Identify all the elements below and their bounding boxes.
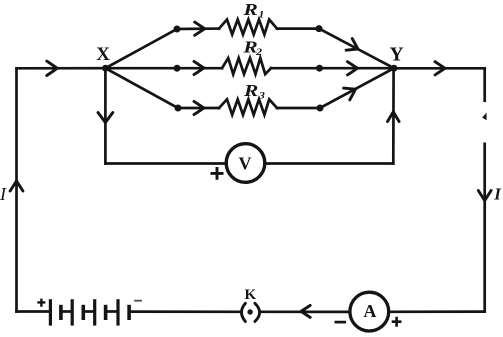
- wire R2 right segment to Y: [271, 67, 394, 70]
- node R3 right dot: [317, 105, 324, 112]
- arrow on R1-Y diagonal: [346, 39, 358, 51]
- wire right rail lower: [483, 144, 486, 312]
- node R1 right dot: [316, 25, 323, 32]
- wire X to R2 left segment: [105, 67, 222, 70]
- label minus ammeter: [335, 321, 347, 324]
- node X dot: [102, 65, 109, 72]
- arrow left between key and ammeter: [301, 305, 310, 317]
- node R3 left dot: [175, 105, 182, 112]
- svg-text:Y: Y: [389, 44, 403, 65]
- node Y dot: [391, 65, 398, 72]
- wire X down to voltmeter row: [104, 68, 107, 163]
- svg-text:I: I: [0, 184, 7, 204]
- wire X to R1 diagonal: [105, 29, 177, 68]
- arrow right on R3 branch: [194, 101, 204, 114]
- node R2 right dot: [316, 65, 323, 72]
- arrow right before Y on R2 branch: [348, 62, 358, 75]
- battery cell 1 long plate: [49, 299, 52, 325]
- resistor R3: [219, 99, 277, 115]
- wire break tick on right rail: [482, 113, 486, 121]
- wire voltmeter right: [265, 162, 394, 165]
- wire R1 left segment: [177, 27, 219, 30]
- arrow up on voltmeter-Y wire: [388, 112, 400, 122]
- battery cell 4 long plate: [116, 299, 119, 325]
- battery cell 2 short plate: [82, 305, 86, 320]
- wire voltmeter left: [105, 162, 226, 165]
- node R1 left dot: [174, 26, 181, 33]
- wire ammeter to right rail: [389, 310, 485, 313]
- svg-text:R1: R1: [242, 1, 264, 20]
- resistor R2: [222, 58, 271, 74]
- arrow right on R1 branch: [195, 22, 205, 35]
- wire X to R3 diagonal: [105, 68, 178, 108]
- battery cell 4 short plate: [127, 305, 131, 320]
- ammeter A: [350, 292, 389, 331]
- svg-text:V: V: [239, 154, 252, 174]
- arrow down on right rail: [478, 191, 491, 201]
- wire cell3-cell4: [106, 310, 118, 313]
- wire voltmeter up to Y: [392, 68, 395, 163]
- svg-text:I: I: [493, 185, 502, 204]
- arrow on R3-Y diagonal: [344, 88, 356, 100]
- wire R3 left segment: [178, 107, 219, 110]
- key K arcs: [242, 303, 260, 321]
- arrow down on X vertical: [98, 113, 113, 123]
- svg-text:K: K: [244, 287, 256, 303]
- key contact dot: [247, 309, 252, 314]
- label + voltmeter: [211, 167, 224, 180]
- label minus battery: [134, 300, 142, 302]
- voltmeter V: [226, 144, 265, 183]
- battery cell 1 short plate: [59, 305, 63, 320]
- wire R3 to Y diagonal: [320, 68, 394, 108]
- svg-text:A: A: [363, 301, 376, 321]
- wire cell1-cell2: [61, 310, 72, 313]
- wire R3 right segment: [277, 107, 320, 110]
- svg-text:X: X: [96, 44, 110, 65]
- node R2 left dot: [174, 65, 181, 72]
- label + ammeter: [392, 317, 402, 327]
- svg-text:R2: R2: [242, 39, 262, 58]
- wire top-left horizontal to X: [17, 67, 106, 70]
- arrow right after Y: [435, 62, 445, 75]
- arrow right on R2 branch: [194, 61, 204, 74]
- wire key to ammeter: [261, 310, 350, 313]
- battery cell 2 long plate: [71, 299, 74, 325]
- wire Y to right rail: [394, 67, 485, 70]
- battery cell 3 short plate: [104, 305, 108, 320]
- wire R1 right segment: [277, 27, 319, 30]
- arrow up on left rail: [10, 181, 23, 191]
- wire bottom left to battery: [17, 310, 51, 313]
- arrow right on top-left wire: [47, 61, 58, 75]
- wire right rail upper: [483, 68, 486, 101]
- wire cell2-cell3: [83, 310, 94, 313]
- wire left rail: [15, 68, 18, 311]
- key left arc: [242, 303, 246, 321]
- svg-text:R3: R3: [243, 82, 265, 101]
- battery: [50, 299, 129, 325]
- label + battery: [37, 299, 45, 307]
- wire battery to key: [129, 310, 240, 313]
- resistor R1: [219, 20, 277, 35]
- key right arc: [255, 303, 260, 321]
- battery cell 3 long plate: [93, 299, 96, 325]
- wire R1 to Y diagonal: [319, 29, 394, 69]
